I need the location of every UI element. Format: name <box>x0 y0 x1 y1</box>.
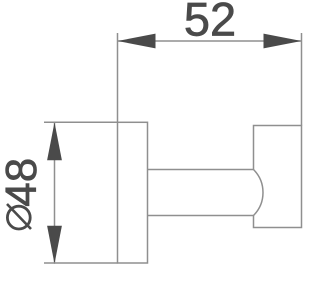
fillet arc between shaft and end cap <box>254 170 263 216</box>
extension line left of 52 (merges into wall plate left edge) <box>117 33 119 123</box>
dimension line Ø48 <box>54 122 56 263</box>
wall plate rectangle (side view) <box>118 122 148 263</box>
arrowhead right of 52 <box>264 34 302 49</box>
diameter symbol slash <box>7 204 31 229</box>
hook end cap rectangle <box>254 126 302 228</box>
svg-text:52: 52 <box>184 0 236 46</box>
arrowhead bottom of Ø48 <box>47 226 62 264</box>
shaft bottom line <box>148 215 254 217</box>
arrowhead left of 52 <box>118 34 156 49</box>
svg-text:48: 48 <box>0 158 46 207</box>
dimension line 52 <box>118 40 302 42</box>
extension line bottom of Ø48 <box>44 262 118 264</box>
dimension text 48 (rotated) <box>0 158 46 207</box>
arrowhead top of Ø48 <box>47 122 62 160</box>
extension line top of Ø48 <box>44 121 118 123</box>
dimension text 52 <box>184 0 236 46</box>
shaft top line <box>148 169 254 171</box>
extension line right of 52 <box>301 33 303 126</box>
diameter symbol circle <box>7 206 30 229</box>
